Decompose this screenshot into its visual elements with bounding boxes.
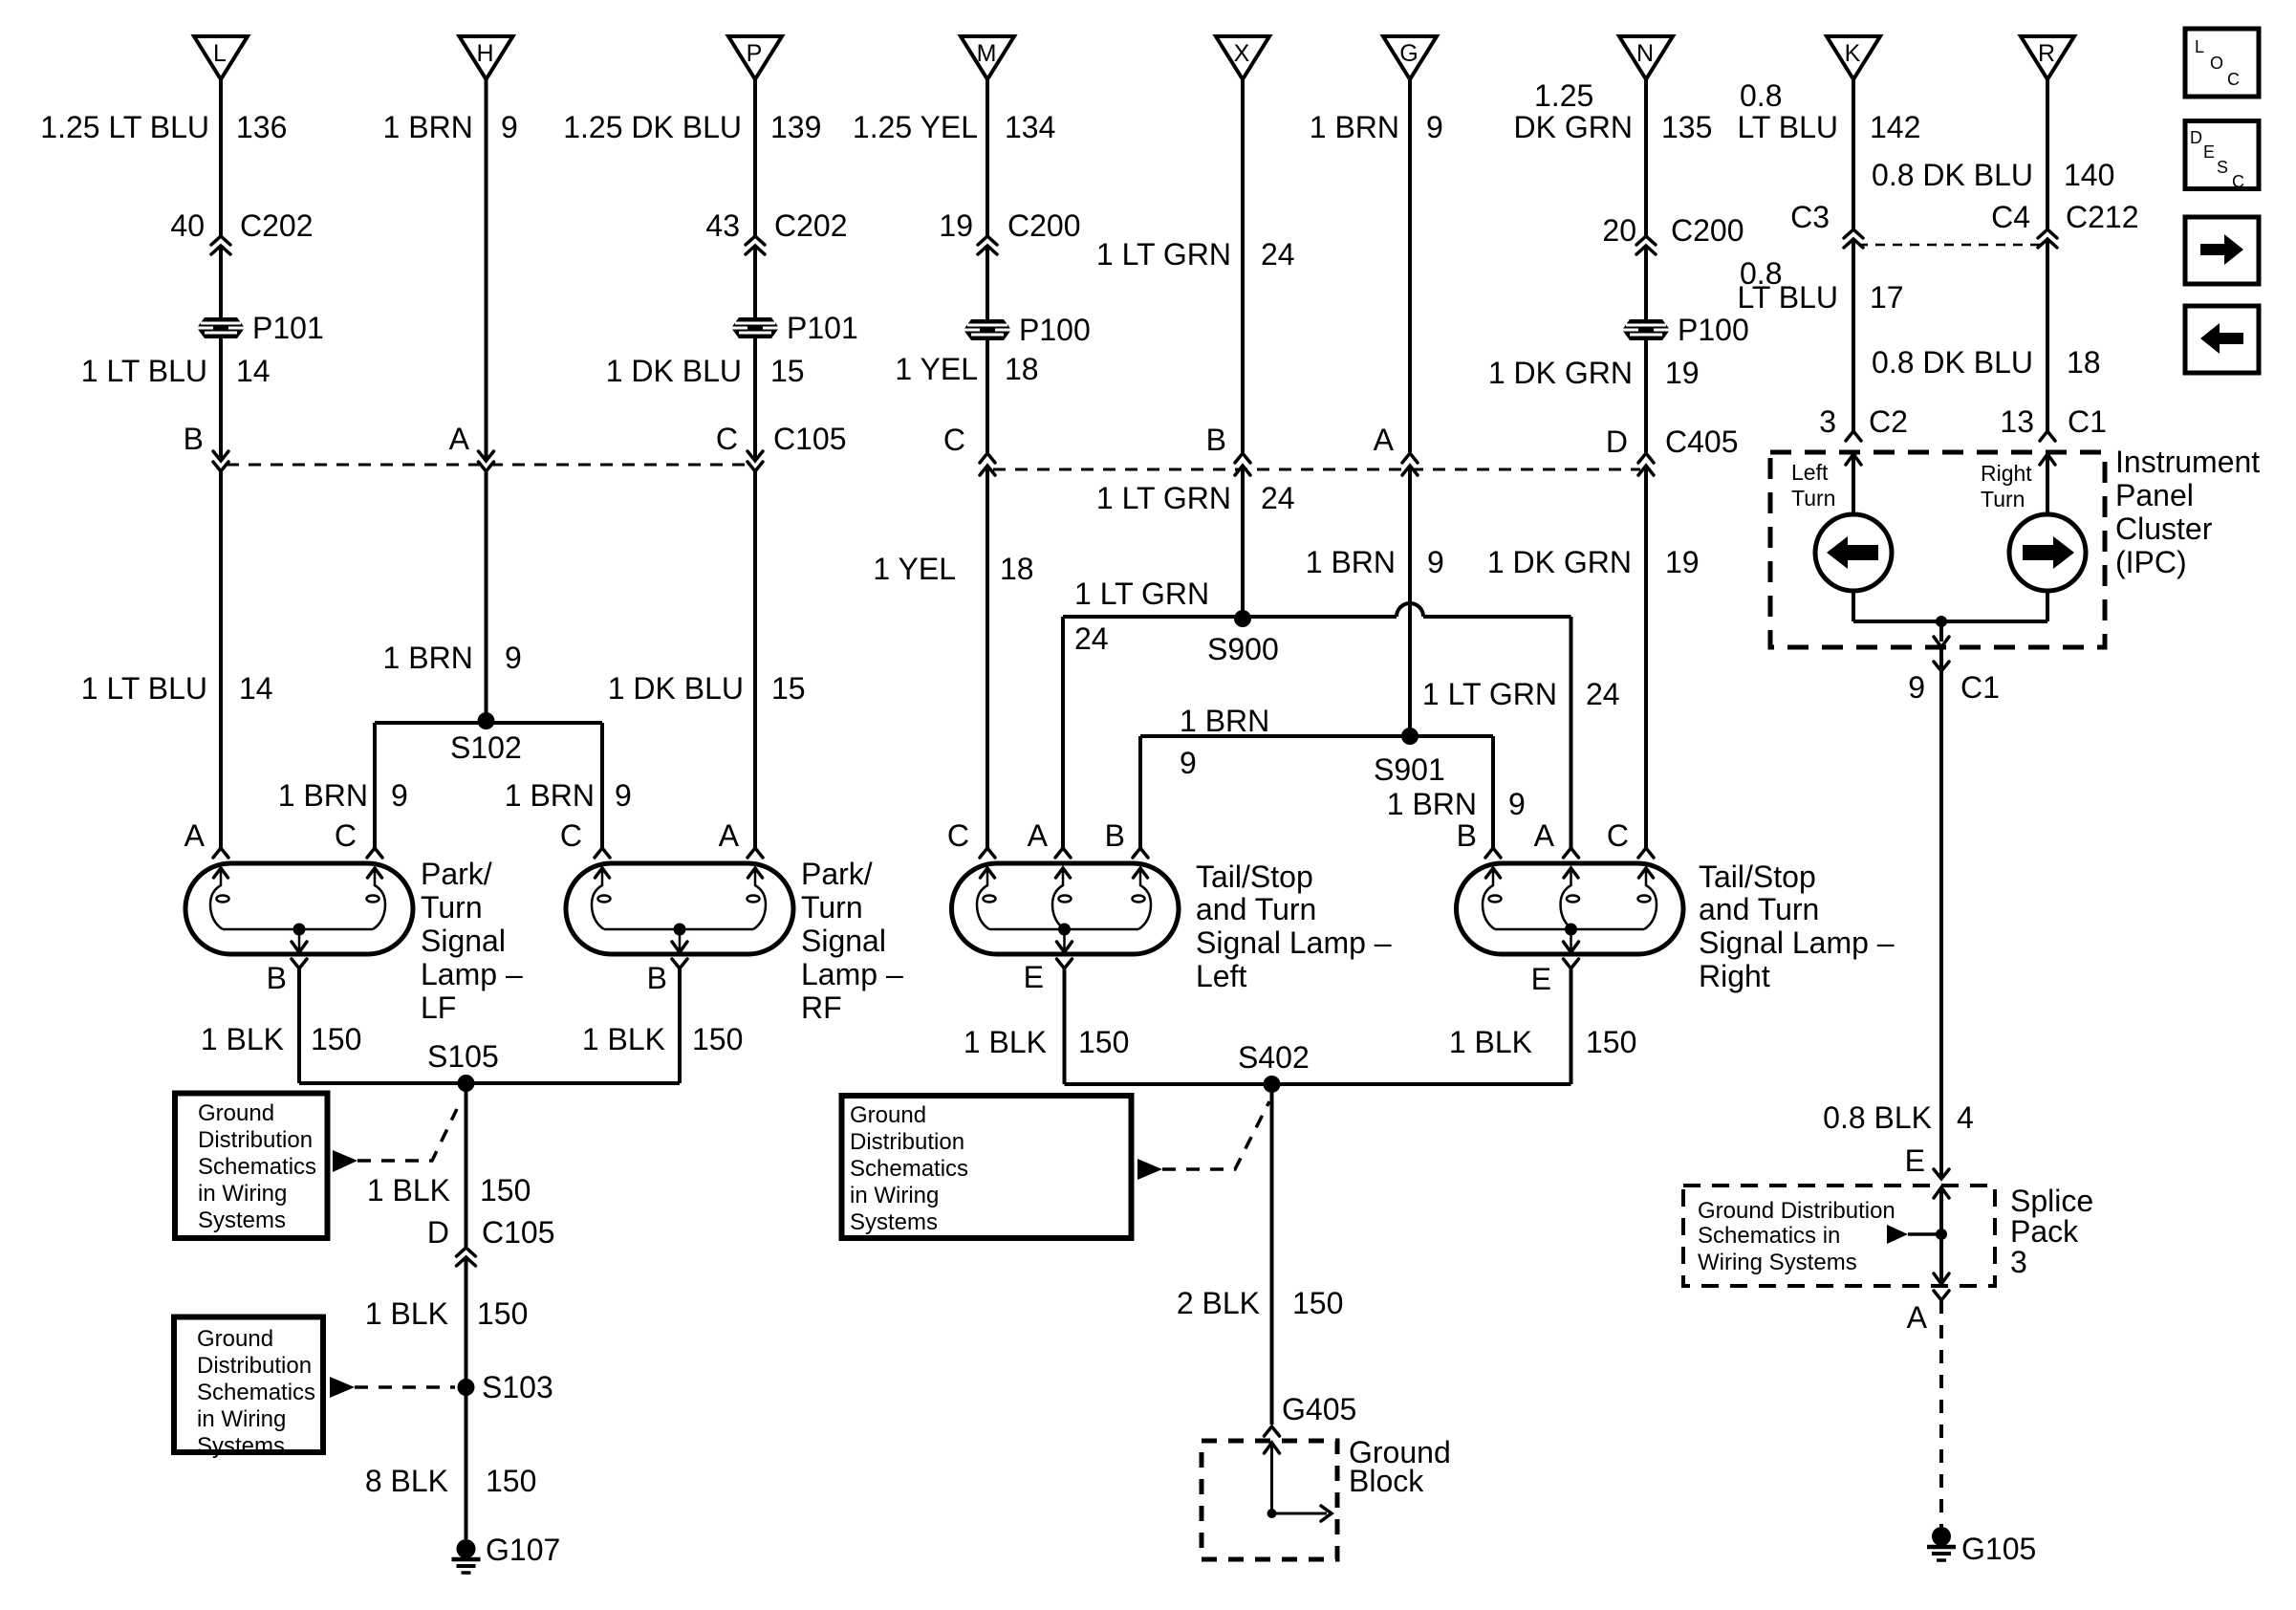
wire P C202 to C105 [753,246,757,461]
svg-text:S102: S102 [450,730,522,765]
terminal A below splice pack [1934,1291,1949,1300]
svg-text:LF: LF [421,990,456,1025]
svg-text:S: S [2217,158,2228,177]
svg-text:0.8 BLK: 0.8 BLK [1823,1100,1932,1135]
svg-text:S105: S105 [427,1039,499,1074]
connector C405 pin B crossing [1235,453,1250,475]
splice junction S901 [1401,728,1419,745]
arrow into IPC left turn pin [1846,454,1861,465]
svg-text:Distribution: Distribution [850,1129,964,1155]
svg-text:43: 43 [705,208,740,243]
arrow into ground block [1265,1443,1280,1453]
svg-text:Systems: Systems [197,1433,285,1459]
dashed link between C3 and C4 [1858,244,2042,247]
Park/Turn Signal Lamp LF internal bus [223,928,373,931]
svg-text:0.8 DK BLU: 0.8 DK BLU [1872,158,2033,192]
wire lamp RF pin B to S105 [678,968,682,1083]
svg-text:Left: Left [1791,460,1829,485]
wire splice pack internal wire [1939,1187,1943,1284]
svg-text:Schematics: Schematics [850,1156,968,1182]
svg-text:40: 40 [170,208,205,243]
svg-text:A: A [1028,818,1049,853]
left turn indicator block arrow [1827,536,1878,569]
svg-text:1 BLK: 1 BLK [582,1022,665,1056]
legend box arrow left [2185,306,2259,373]
svg-text:1 YEL: 1 YEL [895,352,978,386]
svg-text:Turn: Turn [801,890,863,925]
terminal 3 C2 into IPC [1846,431,1861,441]
svg-text:A: A [1374,423,1395,457]
connector C105 pin A crossing [479,451,494,471]
svg-text:Schematics: Schematics [198,1154,316,1180]
Tail/Stop and Turn Signal Lamp Left internal down arrow [1063,929,1066,950]
reference arrow from box 3 to S402 wire [1137,1159,1162,1180]
svg-text:Signal Lamp –: Signal Lamp – [1196,925,1392,960]
svg-text:C: C [1607,818,1629,853]
Park/Turn Signal Lamp LF filament at pin x=231 [210,868,229,929]
svg-text:150: 150 [311,1022,361,1056]
svg-text:24: 24 [1261,481,1295,515]
svg-text:C1: C1 [2068,404,2107,439]
svg-text:Turn: Turn [1981,487,2025,511]
svg-text:E: E [1024,960,1044,994]
svg-text:9: 9 [501,110,518,144]
svg-text:C: C [335,818,357,853]
svg-text:3: 3 [1819,404,1836,439]
svg-text:A: A [719,818,740,853]
svg-text:1 BRN: 1 BRN [278,778,368,813]
svg-text:18: 18 [1005,352,1039,386]
svg-text:1 BLK: 1 BLK [365,1296,448,1331]
Tail/Stop and Turn Signal Lamp Left internal junction [1058,924,1071,936]
svg-text:LT BLU: LT BLU [1737,280,1838,315]
svg-text:17: 17 [1870,280,1904,315]
wire lamp Left pin E to S402 [1063,968,1067,1084]
wire L C105 to lamp LF pin A [219,471,223,848]
svg-text:Signal: Signal [801,924,886,958]
svg-text:Instrument: Instrument [2115,445,2260,479]
wire S900 horizontal with hop over G column [1063,615,1571,619]
svg-text:A: A [1534,818,1555,853]
svg-text:C2: C2 [1869,404,1908,439]
wire IPC internal wire to left turn indicator [1852,454,1855,514]
svg-text:Ground: Ground [850,1102,926,1128]
svg-text:1 LT GRN: 1 LT GRN [1096,237,1231,272]
wire wire 0.8 BLK 4 to splice pack [1939,671,1943,1177]
svg-text:9: 9 [1180,746,1197,780]
svg-text:C105: C105 [773,422,847,456]
svg-text:Block: Block [1349,1464,1424,1498]
grommet P100 (N column) [1622,319,1670,340]
wire S102 left branch to lamp LF pin C [373,723,377,848]
svg-text:Systems: Systems [198,1207,286,1233]
Tail/Stop and Turn Signal Lamp Right lamp outline [1457,863,1684,954]
svg-text:Ground: Ground [198,1100,274,1126]
svg-text:19: 19 [1665,356,1700,390]
svg-text:Pack: Pack [2010,1214,2079,1249]
svg-text:C202: C202 [240,208,314,243]
svg-text:1 BRN: 1 BRN [1180,704,1269,738]
svg-text:X: X [1234,40,1250,67]
wire S901 left branch to lamp Left pin B [1138,736,1142,848]
svg-text:Tail/Stop: Tail/Stop [1196,859,1313,894]
svg-text:19: 19 [939,208,973,243]
svg-text:Splice: Splice [2010,1184,2093,1218]
svg-text:in Wiring: in Wiring [198,1181,287,1207]
svg-text:B: B [267,961,287,995]
svg-text:Right: Right [1699,959,1770,993]
ground G107 [452,1539,481,1573]
svg-text:1 BRN: 1 BRN [1310,110,1399,144]
terminal C of lamp LF [367,848,382,858]
inline connector C105 pin D [457,1248,476,1266]
svg-text:3: 3 [2010,1245,2027,1279]
svg-text:G: G [1399,40,1418,67]
Tail/Stop and Turn Signal Lamp Right filament at pin x=1562 [1483,868,1502,929]
wire P C105 to lamp RF pin A [753,471,757,848]
Tail/Stop and Turn Signal Lamp Left bottom terminal [1057,959,1072,968]
wire X triangle to C405 [1241,79,1245,452]
svg-text:14: 14 [239,671,273,706]
Tail/Stop and Turn Signal Lamp Right filament at pin x=1722 [1638,868,1657,929]
svg-text:Turn: Turn [1791,486,1835,511]
svg-text:D: D [1606,424,1628,459]
wire S102 horizontal branch [375,721,602,725]
wire G triangle to C405 [1408,79,1412,452]
wire K triangle to C3 [1852,79,1855,228]
wire K C3 to C2 [1852,241,1855,431]
Tail/Stop and Turn Signal Lamp Right filament at pin x=1643.5 [1561,868,1580,929]
reference arrow from box 1 to S105 wire [333,1150,357,1172]
Tail/Stop and Turn Signal Lamp Right bottom terminal [1564,959,1579,968]
inline connector C3 (K column) [1844,229,1863,248]
svg-text:C202: C202 [774,208,848,243]
svg-text:C105: C105 [482,1215,555,1250]
arrow out of IPC pin 9 [1934,637,1949,647]
svg-text:142: 142 [1870,110,1920,144]
splice pack reference arrow [1887,1225,1908,1244]
svg-text:1.25 YEL: 1.25 YEL [853,110,978,144]
dashed wire splice pack to G105 [1939,1300,1943,1527]
wire left indicator to IPC bus [1852,591,1855,621]
connector triangle P [728,36,782,79]
terminal A of lamp LF [213,848,228,858]
wire S402 horizontal [1065,1082,1571,1086]
svg-text:B: B [1105,818,1125,853]
svg-text:134: 134 [1005,110,1055,144]
Tail/Stop and Turn Signal Lamp Right internal down arrow [1570,929,1572,950]
grommet P101 (L column) [197,317,245,338]
wire R C4 to C1 [2046,241,2049,431]
splice junction S103 [458,1379,475,1396]
reference arrow from box 2 to S103 [330,1377,355,1398]
svg-text:15: 15 [771,671,806,706]
left turn indicator lamp circle [1815,514,1892,591]
svg-text:19: 19 [1665,545,1700,579]
wire P triangle to C202 [753,79,757,235]
svg-text:C: C [716,422,738,456]
connector triangle K [1827,36,1880,79]
Park/Turn Signal Lamp RF filament at pin x=790 [747,868,767,929]
svg-text:1 DK GRN: 1 DK GRN [1487,545,1632,579]
terminal B of tail lamp Left [1133,848,1148,858]
arrow into splice pack [1934,1187,1949,1198]
terminal 13 C1 into IPC [2040,431,2055,441]
svg-text:135: 135 [1661,110,1712,144]
svg-text:9: 9 [1426,110,1443,144]
svg-text:1.25 LT BLU: 1.25 LT BLU [40,110,209,144]
svg-text:0.8 DK BLU: 0.8 DK BLU [1872,345,2033,380]
wire S402 to G405 [1270,1084,1274,1425]
svg-text:A: A [184,818,206,853]
svg-text:P100: P100 [1019,313,1091,347]
svg-text:1 LT GRN: 1 LT GRN [1422,677,1557,711]
terminal C of tail lamp Left [980,848,995,858]
svg-text:Right: Right [1981,461,2032,486]
svg-text:B: B [647,961,667,995]
grommet P100 (M column) [964,319,1011,340]
svg-text:1 BRN: 1 BRN [383,641,473,675]
inline connector C202 pin 43 (P column) [746,236,765,254]
inline connector C202 pin 40 (L column) [211,236,230,254]
svg-text:Signal Lamp –: Signal Lamp – [1699,925,1895,960]
Tail/Stop and Turn Signal Lamp Left lamp outline [952,863,1180,954]
svg-text:Ground Distribution: Ground Distribution [1698,1198,1895,1224]
inline connector C4 C212 (R column) [2038,229,2057,248]
Park/Turn Signal Lamp RF internal down arrow [679,929,682,950]
wire S105 to C105 pin D [465,1083,468,1247]
svg-text:L: L [213,40,227,67]
wire IPC internal wire to right turn indicator [2046,454,2049,514]
svg-text:1.25 DK BLU: 1.25 DK BLU [563,110,742,144]
wire M triangle to C200 [986,79,989,235]
svg-text:1 BLK: 1 BLK [367,1173,450,1207]
inline connector C200 pin 20 (N column) [1636,236,1656,254]
svg-text:1 BRN: 1 BRN [505,778,595,813]
splice junction S900 [1234,610,1251,627]
ground G105 [1927,1527,1956,1560]
svg-text:E: E [1905,1143,1925,1178]
svg-text:C1: C1 [1960,670,2000,705]
svg-text:9: 9 [505,641,522,675]
Tail/Stop and Turn Signal Lamp Right internal bus [1495,928,1644,931]
svg-text:M: M [977,40,997,67]
svg-text:and Turn: and Turn [1699,892,1819,926]
Park/Turn Signal Lamp RF lamp outline [566,863,793,954]
connector triangle L [194,36,248,79]
connector triangle M [961,36,1014,79]
Instrument Panel Cluster (IPC) dashed box [1770,452,2105,647]
svg-text:1 DK BLU: 1 DK BLU [606,354,742,388]
arrow into IPC right turn pin [2040,454,2055,465]
legend box LOC [2185,29,2259,97]
svg-text:18: 18 [2067,345,2101,380]
svg-text:D: D [427,1215,449,1250]
splice junction IPC internal junction [1936,616,1947,627]
Park/Turn Signal Lamp LF filament at pin x=392 [367,868,386,929]
ground distribution schematics box 2 [174,1317,323,1453]
svg-text:E: E [1531,962,1551,996]
svg-text:150: 150 [486,1464,536,1498]
wire N triangle to C200 [1644,79,1648,235]
Park/Turn Signal Lamp LF lamp outline [185,863,413,954]
terminal B of tail lamp Right [1485,848,1501,858]
Park/Turn Signal Lamp LF bottom terminal [292,959,307,968]
svg-text:A: A [449,422,470,456]
Tail/Stop and Turn Signal Lamp Left internal bus [989,928,1138,931]
svg-text:150: 150 [477,1296,528,1331]
wire hop arc over G column [1397,603,1423,617]
wire IPC pin 9 stub [1939,647,1943,669]
svg-text:Turn: Turn [421,890,483,925]
svg-text:13: 13 [2000,404,2034,439]
connector triangle R [2021,36,2074,79]
svg-text:O: O [2210,54,2223,73]
terminal A of tail lamp Right [1564,848,1579,858]
wire M C405 to lamp Left pin C [986,466,989,848]
svg-text:B: B [1457,818,1477,853]
svg-text:C200: C200 [1671,213,1744,248]
svg-text:P101: P101 [787,311,858,345]
svg-text:18: 18 [1000,552,1034,586]
svg-text:1 LT BLU: 1 LT BLU [81,671,207,706]
wire IPC junction to pin 9 [1939,621,1943,642]
svg-text:1.25: 1.25 [1534,78,1593,113]
svg-text:Distribution: Distribution [198,1127,313,1153]
svg-text:1 LT BLU: 1 LT BLU [81,354,207,388]
splice junction S402 [1264,1076,1281,1093]
svg-text:136: 136 [236,110,287,144]
svg-text:150: 150 [692,1022,743,1056]
svg-text:G405: G405 [1282,1392,1356,1426]
svg-text:9: 9 [1427,545,1444,579]
Park/Turn Signal Lamp RF internal junction [674,924,686,936]
svg-text:1 BLK: 1 BLK [964,1025,1047,1059]
wire S901 horizontal branch [1140,734,1493,738]
svg-text:D: D [2190,128,2202,147]
terminal G405 [1265,1426,1280,1436]
wire L C202 to C105 [219,246,223,461]
terminal E into splice pack [1934,1169,1949,1179]
Tail/Stop and Turn Signal Lamp Left filament at pin x=1033 [977,868,996,929]
terminal A of lamp RF [747,848,763,858]
svg-text:1 YEL: 1 YEL [873,552,956,586]
svg-text:150: 150 [1586,1025,1636,1059]
wire ground block internal wire [1270,1443,1273,1513]
svg-text:R: R [2038,40,2055,67]
right turn indicator lamp circle [2009,514,2086,591]
svg-text:150: 150 [480,1173,531,1207]
terminal A of tail lamp Left [1055,848,1071,858]
svg-text:C3: C3 [1790,200,1830,234]
svg-text:24: 24 [1261,237,1295,272]
terminal C of tail lamp Right [1638,848,1654,858]
svg-text:S901: S901 [1374,752,1445,787]
svg-text:B: B [1206,423,1226,457]
svg-text:Panel: Panel [2115,478,2194,512]
svg-text:C: C [947,818,969,853]
svg-text:Park/: Park/ [801,857,873,891]
Ground Block dashed box [1202,1441,1337,1559]
wire N C200 to C405 [1644,246,1648,452]
svg-text:DK GRN: DK GRN [1514,110,1633,144]
ground block arrow head [1321,1506,1332,1521]
connector C405 dashed line [993,468,1640,471]
svg-text:in Wiring: in Wiring [197,1406,286,1432]
svg-text:2 BLK: 2 BLK [1177,1286,1260,1320]
terminal 9 C1 below IPC [1934,662,1949,671]
svg-text:Park/: Park/ [421,857,492,891]
wire N C405 to lamp Right pin C [1644,466,1648,848]
svg-text:A: A [1907,1300,1928,1335]
svg-text:1 LT GRN: 1 LT GRN [1074,577,1209,611]
svg-text:S900: S900 [1207,632,1279,666]
terminal C of lamp RF [595,848,610,858]
connector C405 pin A crossing [1402,453,1418,475]
svg-text:P101: P101 [252,311,324,345]
svg-text:Cluster: Cluster [2115,511,2213,546]
splice junction ground block internal junction [1267,1509,1277,1518]
svg-text:C4: C4 [1991,200,2030,234]
splice junction splice pack tap junction [1936,1229,1947,1240]
legend box DESC [2185,121,2259,189]
svg-text:14: 14 [236,354,271,388]
Park/Turn Signal Lamp RF filament at pin x=630 [592,868,611,929]
svg-text:in Wiring: in Wiring [850,1183,939,1208]
wire L triangle to C202 [219,79,223,235]
svg-text:Distribution: Distribution [197,1353,312,1379]
splice junction S102 [478,712,495,729]
svg-text:G107: G107 [486,1533,560,1567]
svg-text:1 BRN: 1 BRN [1387,787,1477,821]
svg-text:15: 15 [770,354,805,388]
svg-text:150: 150 [1078,1025,1129,1059]
svg-text:1 LT GRN: 1 LT GRN [1096,481,1231,515]
inline connector C200 pin 19 (M column) [978,236,997,254]
arrow out of splice pack [1934,1273,1949,1284]
right turn indicator block arrow [2023,536,2074,569]
wire right indicator to IPC bus [2046,591,2049,621]
svg-text:Left: Left [1196,959,1246,993]
legend box arrow right [2185,217,2259,284]
Park/Turn Signal Lamp LF internal junction [293,924,306,936]
wire lamp Right pin E to S402 [1570,968,1573,1084]
wire S103 to G107 [465,1387,468,1539]
svg-text:Tail/Stop: Tail/Stop [1699,859,1816,894]
Park/Turn Signal Lamp RF internal bus [604,928,753,931]
svg-text:Schematics in: Schematics in [1698,1223,1840,1249]
svg-text:Ground: Ground [197,1326,273,1352]
svg-text:24: 24 [1586,677,1620,711]
svg-text:20: 20 [1602,213,1636,248]
connector C105 pin C crossing [747,451,763,471]
wire lamp LF pin B to S105 [297,968,301,1083]
svg-text:Signal: Signal [421,924,506,958]
splice junction S105 [458,1075,475,1092]
connector C105 dashed line [227,464,749,467]
Tail/Stop and Turn Signal Lamp Left filament at pin x=1193 [1133,868,1152,929]
svg-text:H: H [476,40,493,67]
Park/Turn Signal Lamp RF bottom terminal [672,959,687,968]
svg-text:Lamp –: Lamp – [421,957,523,991]
svg-text:C: C [2232,172,2244,191]
svg-text:24: 24 [1074,621,1109,656]
wire S901 right branch to lamp Right pin B [1491,736,1495,848]
svg-text:9: 9 [1908,670,1925,705]
svg-text:Lamp –: Lamp – [801,957,903,991]
svg-text:1 DK GRN: 1 DK GRN [1488,356,1633,390]
svg-text:1 DK BLU: 1 DK BLU [608,671,744,706]
